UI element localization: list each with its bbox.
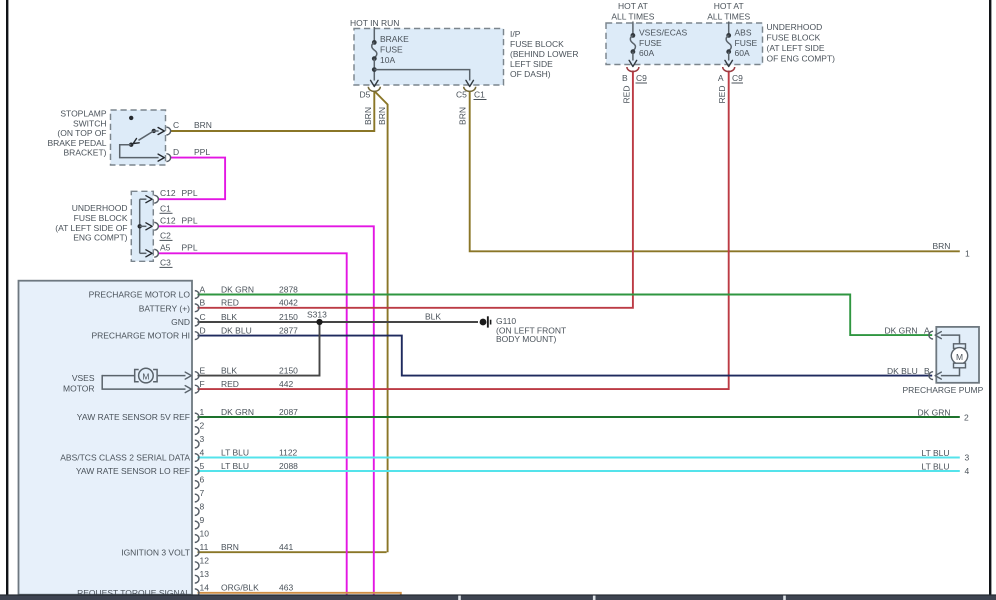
wire ORG/BLK 463 row14 xyxy=(198,593,401,595)
switch C lead xyxy=(154,130,159,132)
svg-text:DK BLU: DK BLU xyxy=(221,325,252,335)
svg-text:IGNITION 3 VOLT: IGNITION 3 VOLT xyxy=(121,547,190,557)
svg-text:BLK: BLK xyxy=(221,365,237,375)
svg-text:2877: 2877 xyxy=(279,325,298,335)
wire RED 4042 VSES/ECAS fuse to EBCM pin B xyxy=(198,71,633,308)
svg-text:1122: 1122 xyxy=(279,447,298,457)
wire PPL 439 connector A5 down xyxy=(158,253,347,595)
switch contact top xyxy=(129,116,133,120)
svg-text:DK GRN: DK GRN xyxy=(885,325,918,335)
pin F arc xyxy=(195,385,199,393)
svg-text:BRAKE PEDAL: BRAKE PEDAL xyxy=(47,138,106,148)
svg-text:4: 4 xyxy=(200,447,205,457)
pin 1 arc xyxy=(195,413,199,421)
arrow into pin F xyxy=(185,386,191,393)
svg-text:PRECHARGE MOTOR HI: PRECHARGE MOTOR HI xyxy=(91,331,190,341)
svg-text:PPL: PPL xyxy=(182,242,198,252)
underline C9 1 xyxy=(636,82,648,84)
svg-text:RED: RED xyxy=(221,379,239,389)
arrow into A C9 xyxy=(725,60,733,66)
pump brush top xyxy=(954,344,966,349)
svg-text:BODY MOUNT): BODY MOUNT) xyxy=(496,334,556,344)
vses motor bracket right xyxy=(153,370,157,382)
pin cup A C9 xyxy=(723,67,735,72)
wire DK GRN 2087 row1 to off-page 2 xyxy=(198,416,960,418)
underline C9 2 xyxy=(732,82,744,84)
pin 11 arc xyxy=(195,548,199,556)
svg-text:(ON TOP OF: (ON TOP OF xyxy=(57,128,106,138)
svg-text:ALL TIMES: ALL TIMES xyxy=(707,12,750,22)
svg-text:C: C xyxy=(173,120,179,130)
svg-text:9: 9 xyxy=(200,515,205,525)
motor M2 circle xyxy=(951,348,967,364)
svg-text:ENG COMPT): ENG COMPT) xyxy=(73,233,127,243)
svg-text:BATTERY (+): BATTERY (+) xyxy=(139,303,190,313)
switch lower contact xyxy=(129,143,133,147)
svg-text:2: 2 xyxy=(200,420,205,430)
svg-text:UNDERHOOD: UNDERHOOD xyxy=(767,22,823,32)
pin arc D xyxy=(166,154,170,162)
pump brush bottom xyxy=(954,363,966,368)
svg-text:BLK: BLK xyxy=(221,312,237,322)
stoplamp switch box xyxy=(111,110,166,165)
svg-text:4: 4 xyxy=(965,466,970,476)
svg-text:VSES/ECAS: VSES/ECAS xyxy=(639,28,688,38)
svg-text:E: E xyxy=(200,365,206,375)
svg-text:DK GRN: DK GRN xyxy=(221,407,254,417)
svg-text:BRN: BRN xyxy=(457,107,467,125)
svg-text:BRACKET): BRACKET) xyxy=(64,148,107,158)
svg-text:HOT AT: HOT AT xyxy=(714,1,744,11)
underline C1 b xyxy=(160,212,173,214)
svg-text:M: M xyxy=(956,352,963,362)
svg-text:B: B xyxy=(924,366,930,376)
pin E arc xyxy=(195,372,199,380)
svg-text:(AT LEFT SIDE: (AT LEFT SIDE xyxy=(767,43,825,53)
vses motor lead F xyxy=(102,375,185,389)
underline C1 xyxy=(474,99,487,101)
svg-text:5: 5 xyxy=(200,461,205,471)
underhood fuse block connector C1 C2 C3 box xyxy=(131,191,153,261)
svg-text:DK GRN: DK GRN xyxy=(221,284,254,294)
vses/ecas fuse feed xyxy=(632,22,634,35)
arrow into pin E xyxy=(185,372,191,379)
bottom bar xyxy=(0,595,996,600)
svg-text:LT BLU: LT BLU xyxy=(922,461,950,471)
svg-text:BRN: BRN xyxy=(221,542,239,552)
page border left xyxy=(6,0,8,595)
svg-text:F: F xyxy=(200,379,205,389)
svg-text:DK GRN: DK GRN xyxy=(918,407,951,417)
I/P fuse block box xyxy=(354,29,504,86)
pin arc A5 xyxy=(154,249,158,257)
svg-text:A: A xyxy=(718,73,724,83)
arrow out pin B xyxy=(935,372,941,379)
svg-text:BLK: BLK xyxy=(425,312,441,322)
svg-text:MOTOR: MOTOR xyxy=(63,383,94,393)
svg-text:60A: 60A xyxy=(639,48,654,58)
underline C3 xyxy=(160,266,173,268)
pin arc C12b xyxy=(154,222,158,230)
svg-text:S313: S313 xyxy=(307,310,327,320)
svg-text:14: 14 xyxy=(200,583,210,593)
svg-text:C5: C5 xyxy=(456,90,467,100)
connector bus node xyxy=(138,224,142,228)
svg-text:ABS: ABS xyxy=(735,28,752,38)
svg-text:2150: 2150 xyxy=(279,312,298,322)
svg-text:D5: D5 xyxy=(360,90,371,100)
wire PPL 439 stoplamp D to connector C12 xyxy=(158,158,225,200)
svg-text:B: B xyxy=(200,298,206,308)
pump wiring xyxy=(941,335,960,376)
wire LT BLU 1122 row4 to off-page 3 xyxy=(198,457,960,459)
switch arm arrowhead xyxy=(133,139,139,144)
node S313 xyxy=(316,319,322,325)
pin cup C5 xyxy=(464,87,476,92)
wire BLK 2150 EBCM pin E to S313 xyxy=(198,322,320,376)
svg-text:C12: C12 xyxy=(160,188,176,198)
connector bus xyxy=(139,199,141,253)
svg-text:A: A xyxy=(200,284,206,294)
pin 13 arc xyxy=(195,575,199,583)
wire RED 442 ABS fuse to EBCM pin F xyxy=(198,71,729,390)
svg-text:ORG/BLK: ORG/BLK xyxy=(221,583,259,593)
abs fuse out xyxy=(728,52,730,61)
svg-text:A: A xyxy=(924,325,930,335)
pin A arc xyxy=(195,291,199,299)
vses fuse out xyxy=(632,52,634,61)
svg-text:M: M xyxy=(142,372,149,382)
vses motor bracket left xyxy=(135,370,139,382)
svg-text:FUSE BLOCK: FUSE BLOCK xyxy=(767,33,821,43)
svg-text:2: 2 xyxy=(964,413,969,423)
svg-text:STOPLAMP: STOPLAMP xyxy=(60,109,106,119)
svg-text:(AT LEFT SIDE OF: (AT LEFT SIDE OF xyxy=(55,223,127,233)
pin 14 arc xyxy=(195,589,199,597)
pin 9 arc xyxy=(195,521,199,529)
bar separator 1 xyxy=(458,596,461,600)
pin 6 arc xyxy=(195,481,199,489)
arrow into D5 xyxy=(371,80,379,86)
svg-text:(BEHIND LOWER: (BEHIND LOWER xyxy=(510,49,578,59)
bus lead A5 xyxy=(140,252,147,254)
svg-text:C12: C12 xyxy=(160,215,176,225)
svg-text:C1: C1 xyxy=(474,90,485,100)
bar separator 2 xyxy=(593,596,596,600)
svg-text:1: 1 xyxy=(965,249,970,259)
svg-text:A5: A5 xyxy=(160,242,171,252)
fuse VSES/ECAS FUSE 60A xyxy=(630,33,635,54)
svg-text:FUSE BLOCK: FUSE BLOCK xyxy=(510,39,564,49)
wire PPL 439 connector C12 down xyxy=(158,226,374,595)
svg-text:3: 3 xyxy=(200,434,205,444)
arrow into A5 xyxy=(146,250,152,257)
svg-text:BRN: BRN xyxy=(933,241,951,251)
underline C2 xyxy=(160,239,173,241)
wire BLK 2150 EBCM pin C to G110 xyxy=(198,321,479,323)
pin arc C xyxy=(166,127,170,135)
arrow into C5 xyxy=(466,80,474,86)
svg-text:1: 1 xyxy=(200,407,205,417)
svg-text:2150: 2150 xyxy=(279,365,298,375)
arrow into C12b xyxy=(146,223,152,230)
vses motor lead E xyxy=(102,375,134,377)
svg-text:I/P: I/P xyxy=(510,29,521,39)
svg-text:441: 441 xyxy=(279,542,293,552)
svg-text:SWITCH: SWITCH xyxy=(73,118,107,128)
junction in I/P block xyxy=(372,67,377,72)
fuse ABS FUSE 60A xyxy=(726,33,731,54)
svg-text:VSES: VSES xyxy=(72,373,95,383)
svg-text:LT BLU: LT BLU xyxy=(221,447,249,457)
svg-text:10: 10 xyxy=(200,528,210,538)
arrow out pin A xyxy=(935,332,941,339)
arrow into C12 xyxy=(146,196,152,203)
bar separator 3 xyxy=(783,596,786,600)
svg-text:C9: C9 xyxy=(732,73,743,83)
svg-text:BRN: BRN xyxy=(194,120,212,130)
wire BRN 441 EBCM pin 11 row xyxy=(198,551,387,553)
bottom bar top edge xyxy=(0,594,996,595)
svg-text:C1: C1 xyxy=(160,203,171,213)
pin 4 arc xyxy=(195,454,199,462)
svg-text:G110: G110 xyxy=(496,316,516,326)
switch arm xyxy=(139,131,154,140)
wire BRN 441 stoplamp C to fuse block D5 xyxy=(171,91,375,131)
pin 10 arc xyxy=(195,535,199,543)
svg-text:HOT AT: HOT AT xyxy=(618,1,648,11)
svg-text:10A: 10A xyxy=(380,55,395,65)
precharge pump box xyxy=(936,327,979,383)
svg-text:DK BLU: DK BLU xyxy=(887,366,918,376)
svg-text:LT BLU: LT BLU xyxy=(922,448,950,458)
svg-text:OF ENG COMPT): OF ENG COMPT) xyxy=(767,54,836,64)
svg-text:BRN: BRN xyxy=(377,107,387,125)
svg-text:C3: C3 xyxy=(160,257,171,267)
svg-text:LEFT SIDE: LEFT SIDE xyxy=(510,59,553,69)
fuse output line xyxy=(373,59,375,81)
arrow into C xyxy=(158,128,164,135)
svg-text:442: 442 xyxy=(279,379,293,389)
svg-text:HOT IN RUN: HOT IN RUN xyxy=(350,18,399,28)
svg-text:6: 6 xyxy=(200,474,205,484)
brake fuse feed line xyxy=(373,27,375,41)
branch to C5 xyxy=(374,70,469,81)
pump pin B arc xyxy=(929,372,933,380)
svg-text:UNDERHOOD: UNDERHOOD xyxy=(72,203,128,213)
ground G110 symbol xyxy=(480,316,492,327)
abs fuse feed xyxy=(728,22,730,35)
pin 7 arc xyxy=(195,494,199,502)
EBCM connector box xyxy=(19,281,193,595)
svg-text:BRAKE: BRAKE xyxy=(380,34,409,44)
svg-text:FUSE BLOCK: FUSE BLOCK xyxy=(74,213,128,223)
svg-text:2878: 2878 xyxy=(279,284,298,294)
page border right xyxy=(989,0,991,595)
pin 3 arc xyxy=(195,440,199,448)
svg-text:3: 3 xyxy=(965,453,970,463)
fuse BRAKE FUSE 10A xyxy=(372,40,377,61)
pin C arc xyxy=(195,318,199,326)
svg-text:PRECHARGE PUMP: PRECHARGE PUMP xyxy=(903,385,984,395)
svg-text:4042: 4042 xyxy=(279,298,298,308)
svg-text:12: 12 xyxy=(200,556,210,566)
svg-text:RED: RED xyxy=(622,86,632,104)
wire DK GRN 2878 EBCM pin A to pump A xyxy=(198,295,933,336)
svg-text:FUSE: FUSE xyxy=(639,38,662,48)
svg-text:D: D xyxy=(200,325,206,335)
svg-text:60A: 60A xyxy=(735,48,750,58)
svg-text:8: 8 xyxy=(200,501,205,511)
svg-text:BRN: BRN xyxy=(363,107,373,125)
pump pin A arc xyxy=(929,331,933,339)
svg-text:PPL: PPL xyxy=(182,188,198,198)
wire BRN 441 fuse block C5 to off-page 1 xyxy=(470,91,960,251)
svg-text:PPL: PPL xyxy=(182,215,198,225)
svg-text:RED: RED xyxy=(221,298,239,308)
svg-text:YAW RATE SENSOR 5V REF: YAW RATE SENSOR 5V REF xyxy=(77,412,190,422)
svg-text:OF DASH): OF DASH) xyxy=(510,69,551,79)
svg-text:C: C xyxy=(200,312,206,322)
svg-text:463: 463 xyxy=(279,583,293,593)
wire DK BLU 2877 EBCM pin D to pump B xyxy=(198,336,933,376)
svg-text:LT BLU: LT BLU xyxy=(221,461,249,471)
wire LT BLU 2088 row5 to off-page 4 xyxy=(198,470,960,472)
svg-text:2087: 2087 xyxy=(279,407,298,417)
pin 2 arc xyxy=(195,427,199,435)
pin cup D5 xyxy=(368,87,380,92)
svg-text:11: 11 xyxy=(200,542,209,552)
svg-text:C9: C9 xyxy=(636,73,647,83)
pin arc C12 xyxy=(154,195,158,203)
svg-text:RED: RED xyxy=(717,86,727,104)
svg-text:ALL TIMES: ALL TIMES xyxy=(611,12,654,22)
svg-text:C2: C2 xyxy=(160,230,171,240)
svg-text:13: 13 xyxy=(200,569,210,579)
svg-text:GND: GND xyxy=(171,317,190,327)
pin 5 arc xyxy=(195,467,199,475)
pin 12 arc xyxy=(195,562,199,570)
arrow into D xyxy=(158,154,164,161)
svg-text:YAW RATE SENSOR LO REF: YAW RATE SENSOR LO REF xyxy=(76,466,190,476)
svg-text:B: B xyxy=(622,73,628,83)
pin D arc xyxy=(195,332,199,340)
svg-text:PRECHARGE MOTOR LO: PRECHARGE MOTOR LO xyxy=(89,290,191,300)
pin 8 arc xyxy=(195,508,199,516)
bus lead C12b xyxy=(140,225,147,227)
svg-text:7: 7 xyxy=(200,488,205,498)
svg-text:FUSE: FUSE xyxy=(735,38,758,48)
switch arm pivot xyxy=(152,129,156,133)
svg-text:2088: 2088 xyxy=(279,461,298,471)
svg-text:D: D xyxy=(173,147,179,157)
pin cup B C9 xyxy=(627,67,639,72)
underhood fuse block box xyxy=(606,23,763,65)
arrow into B C9 xyxy=(629,60,637,66)
motor M1 circle xyxy=(139,368,154,383)
wire BRN 441 D5 drop to ignition feed xyxy=(374,91,387,552)
vses motor lead to E pin xyxy=(158,375,186,377)
switch D lead xyxy=(120,145,159,158)
svg-text:ABS/TCS CLASS 2 SERIAL DATA: ABS/TCS CLASS 2 SERIAL DATA xyxy=(60,453,190,463)
svg-text:PPL: PPL xyxy=(194,147,210,157)
svg-text:FUSE: FUSE xyxy=(380,45,403,55)
pin B arc xyxy=(195,304,199,312)
bus lead C12 xyxy=(140,198,147,200)
